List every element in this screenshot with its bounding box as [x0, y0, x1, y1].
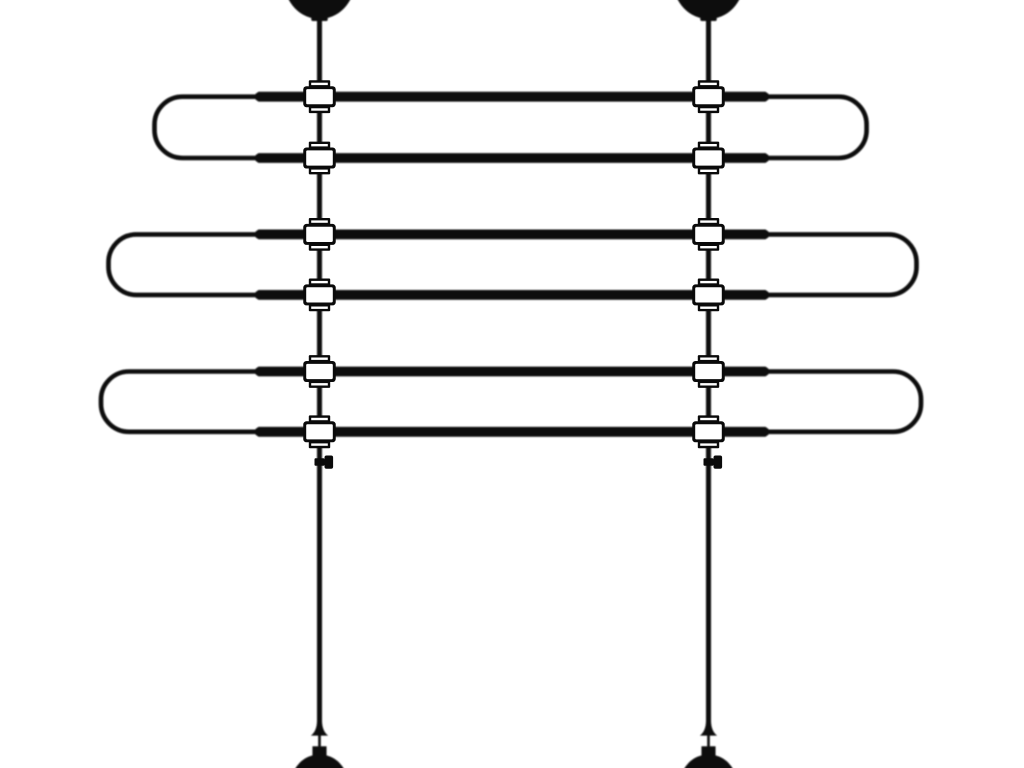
left clamp tube 2 lower [303, 279, 336, 312]
left clamp tube 1 lower [303, 142, 336, 175]
right pole top mounting ball [674, 0, 744, 19]
tube frame 3 upper thick bar [256, 367, 769, 377]
right pole bottom suction ball [681, 755, 737, 768]
tube frame 3 lower thick bar [256, 427, 769, 437]
left pole ball neck [311, 11, 327, 21]
left clamp tube 2 upper [303, 218, 336, 251]
right clamp tube 1 lower [692, 142, 725, 175]
right clamp tube 1 upper [692, 80, 725, 113]
left pole lower stem [318, 734, 321, 748]
left clamp tube 1 upper [303, 80, 336, 113]
tube frame 2 lower thick bar [256, 290, 769, 300]
right pole foot cap [701, 746, 715, 756]
left clamp tube 3 lower [303, 415, 336, 448]
left pole bottom trumpet flare [311, 721, 328, 736]
right clamp tube 2 lower [692, 279, 725, 312]
right pole bottom trumpet flare [700, 721, 717, 736]
left clamp tube 3 upper [303, 355, 336, 388]
left pole foot cap [312, 746, 326, 756]
right clamp tube 3 upper [692, 355, 725, 388]
left pole vertical tube [317, 18, 322, 726]
left pole locking lever [315, 456, 334, 469]
tube frame 1 lower thick bar [256, 153, 769, 163]
right clamp tube 3 lower [692, 415, 725, 448]
right pole vertical tube [706, 18, 711, 726]
right clamp tube 2 upper [692, 218, 725, 251]
tube frame 2 thin outline [109, 234, 917, 295]
tube frame 3 thin outline [101, 372, 921, 432]
right pole locking lever [704, 456, 723, 469]
right pole lower stem [707, 734, 710, 748]
tube frame 1 thin outline [155, 97, 867, 158]
left pole top mounting ball [285, 0, 355, 19]
left pole bottom suction ball [292, 755, 348, 768]
right pole ball neck [700, 11, 716, 21]
tube frame 2 upper thick bar [256, 230, 769, 240]
tube frame 1 upper thick bar [256, 92, 769, 102]
